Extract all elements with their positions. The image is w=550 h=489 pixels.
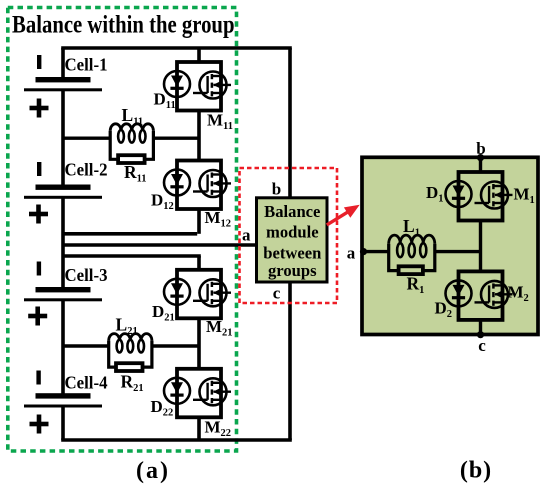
wire: lead from L21 to mid node [152, 344, 199, 347]
wire: L1 to mid node [435, 250, 481, 253]
wire: left battery bus segment 4 [61, 300, 65, 395]
wire: lead from bus to L11 [63, 136, 110, 139]
svg-text:M11: M11 [207, 111, 233, 133]
node a terminal dot [360, 248, 367, 255]
resistor R21 [116, 363, 143, 371]
resistor R11 [118, 155, 145, 163]
svg-text:b: b [476, 139, 485, 158]
wire: L21/R21 parallel frame [109, 341, 152, 368]
node c terminal dot [477, 331, 484, 338]
node b terminal dot [477, 154, 484, 161]
svg-text:c: c [273, 284, 281, 303]
svg-text:M21: M21 [206, 317, 233, 339]
inductor L11 coil [110, 124, 153, 131]
battery Cell-2 [24, 185, 102, 199]
wire: pair2 source lead down [197, 209, 201, 234]
svg-text:(b): (b) [460, 458, 492, 484]
wire: pair4 source lead to bottom rail [197, 417, 201, 440]
red arrow to detail view [327, 212, 349, 225]
minus mark Cell-3 [37, 262, 41, 276]
svg-text:Cell-1: Cell-1 [65, 55, 108, 75]
wire: L11/R11 parallel frame [110, 131, 153, 160]
wire: node a to balance module [63, 243, 257, 247]
svg-text:R21: R21 [121, 372, 144, 395]
plus mark Cell-2 [29, 205, 48, 224]
svg-text:M12: M12 [205, 208, 232, 230]
wire: bottom rail [61, 438, 292, 442]
detail view: balance module box (b) [362, 157, 538, 334]
wire: lead from L11 to mid node [153, 136, 199, 139]
svg-text:D11: D11 [154, 90, 176, 112]
wire: lead to pair D21/M21 [197, 256, 201, 270]
wire: lead from bus to L21 [63, 344, 109, 347]
wire: lead from top rail to pair D11/M11 [197, 48, 201, 62]
svg-text:b: b [272, 180, 281, 199]
plus mark Cell-4 [30, 415, 49, 434]
wire: pair2 source to bus [63, 232, 197, 236]
svg-text:c: c [478, 336, 486, 355]
inductor L21 coil [109, 334, 152, 341]
wire: mid lead pairB1 to pairB2 [479, 221, 482, 272]
svg-text:module: module [266, 223, 319, 242]
MOSFET-diode pair D2 M2 [446, 271, 513, 320]
wire: left battery bus segment 1 [61, 48, 65, 78]
svg-text:L21: L21 [116, 315, 138, 338]
plus mark Cell-1 [30, 99, 49, 118]
svg-text:Balance: Balance [264, 202, 320, 221]
wire: L1/R1 parallel frame [389, 244, 435, 271]
battery Cell-3 [24, 287, 102, 301]
wire: group2 top rail from bus [63, 254, 201, 258]
balance module box [257, 198, 328, 282]
group boundary: green dashed box [8, 8, 237, 452]
svg-text:Cell-4: Cell-4 [65, 373, 108, 393]
minus mark Cell-4 [36, 371, 40, 385]
inductor L1 coil [389, 235, 435, 244]
wire: pairB2 to c terminal [479, 320, 482, 335]
svg-text:Cell-3: Cell-3 [65, 265, 108, 285]
svg-text:a: a [347, 244, 356, 263]
svg-text:Balance within the group: Balance within the group [12, 12, 234, 39]
wire: left battery bus segment 5 [61, 407, 65, 441]
wire: left battery bus segment 3 [61, 199, 65, 289]
MOSFET-diode pair D12 M12 [164, 161, 231, 210]
svg-text:L11: L11 [122, 105, 144, 128]
wire: top rail [61, 46, 292, 50]
svg-text:D21: D21 [152, 302, 175, 324]
wire: left battery bus segment 2 [61, 91, 65, 186]
MOSFET-diode pair D11 M11 [164, 62, 231, 111]
balance module red dashed box [240, 168, 338, 303]
svg-text:groups: groups [268, 261, 317, 280]
minus mark Cell-2 [37, 162, 41, 176]
plus mark Cell-3 [28, 307, 47, 326]
svg-text:between: between [263, 244, 321, 263]
MOSFET-diode pair D21 M21 [164, 270, 231, 319]
wire: a terminal to L1 [364, 250, 389, 253]
MOSFET-diode pair D22 M22 [164, 369, 231, 418]
svg-text:R11: R11 [124, 162, 147, 185]
battery Cell-4 [24, 393, 102, 407]
wire: mid lead pair1 to pair2 [197, 111, 201, 161]
MOSFET-diode pair D1 M1 [446, 172, 513, 221]
svg-text:Cell-2: Cell-2 [65, 160, 108, 180]
wire: mid lead pair3 to pair4 [197, 318, 201, 369]
wire: right bus (node b to c through balance module) [288, 48, 292, 440]
svg-text:(a): (a) [136, 458, 170, 484]
wire: b terminal to pair D1/M1 [479, 157, 482, 172]
svg-text:M22: M22 [205, 418, 232, 440]
svg-text:a: a [242, 225, 251, 244]
minus mark Cell-1 [37, 55, 41, 69]
battery Cell-1 [24, 77, 102, 91]
resistor R1 [399, 266, 423, 274]
